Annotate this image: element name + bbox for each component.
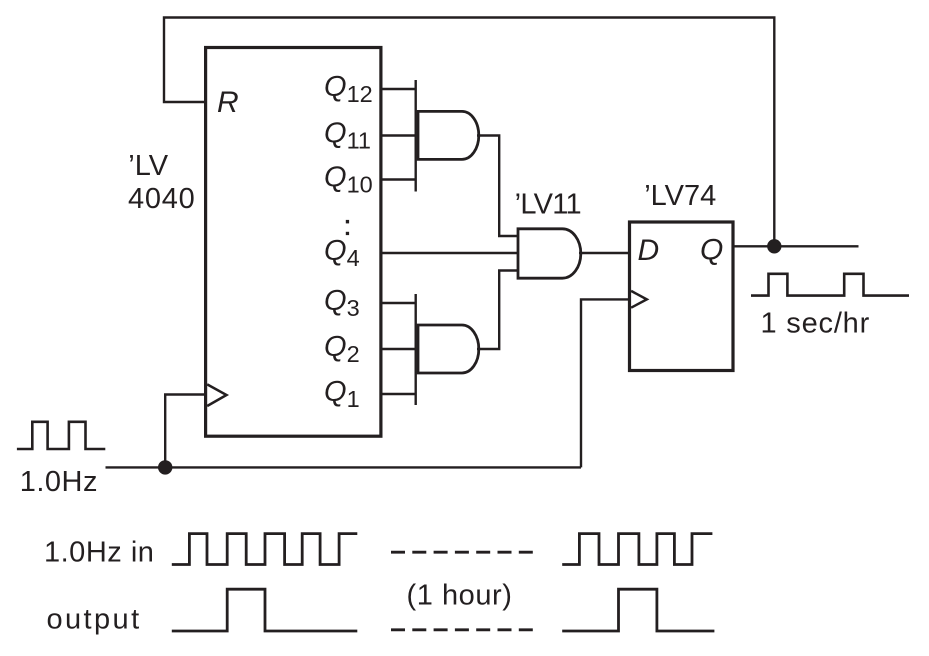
svg-text:Q1: Q1 [324, 376, 360, 412]
svg-text:1.0Hz: 1.0Hz [20, 466, 98, 498]
svg-text:’LV: ’LV [128, 150, 168, 182]
svg-text:output: output [47, 603, 142, 635]
svg-text:D: D [638, 234, 660, 267]
svg-text:Q4: Q4 [324, 235, 360, 271]
svg-text:Q12: Q12 [324, 71, 373, 107]
svg-text:Q2: Q2 [324, 331, 360, 367]
svg-text:’LV11: ’LV11 [515, 189, 581, 221]
svg-text:(1 hour): (1 hour) [407, 579, 513, 611]
svg-text:’LV74: ’LV74 [644, 180, 716, 212]
svg-text:4040: 4040 [128, 183, 196, 215]
svg-text:Q11: Q11 [324, 117, 371, 153]
svg-text:Q10: Q10 [324, 161, 373, 197]
svg-text:Q3: Q3 [324, 285, 360, 321]
svg-text:1 sec/hr: 1 sec/hr [761, 308, 871, 340]
svg-text:1.0Hz in: 1.0Hz in [44, 537, 154, 569]
svg-text:R: R [217, 86, 239, 119]
svg-text:Q: Q [700, 234, 723, 267]
